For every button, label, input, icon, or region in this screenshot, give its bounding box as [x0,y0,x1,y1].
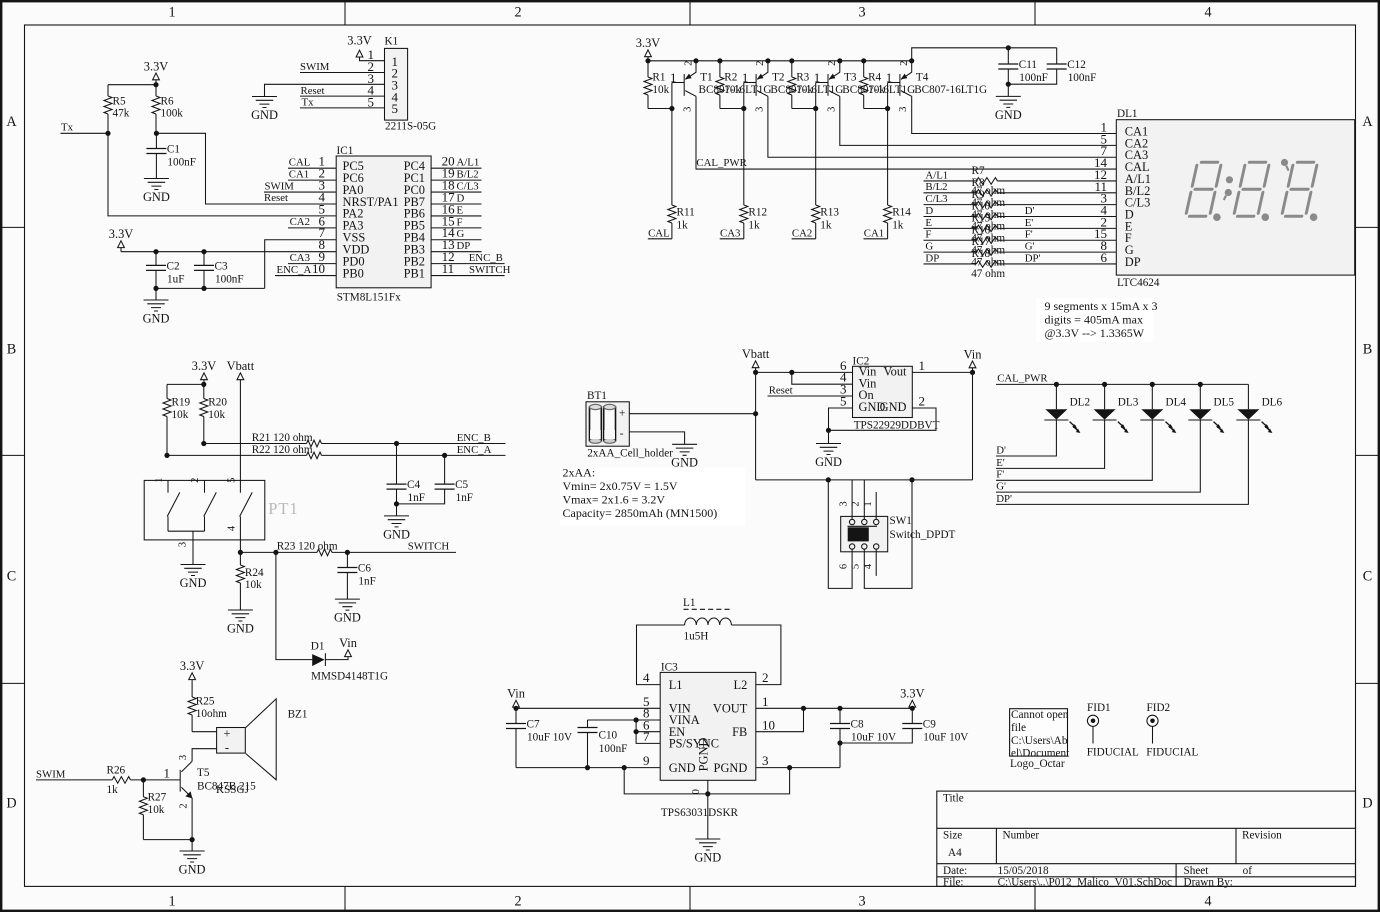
svg-text:L2: L2 [734,678,748,692]
svg-text:10k: 10k [652,84,669,96]
svg-text:2: 2 [179,803,190,808]
resistor R27 [139,780,166,840]
wire SW1 pin3 [851,480,853,519]
junction [153,249,158,254]
wire SWIM (IC1) [264,191,336,193]
IC U1 STM8L151Fx (IC1) [312,145,455,304]
junction [741,106,746,111]
wire ENC_B (IC1) [431,263,505,265]
junction [201,286,206,291]
svg-text:PB0: PB0 [343,266,364,280]
svg-text:9: 9 [643,753,650,768]
svg-text:10k: 10k [208,409,225,421]
ground (C6) [334,599,361,624]
svg-text:Vin: Vin [507,687,525,701]
wire CA3 [288,263,336,265]
svg-text:Title: Title [943,793,964,805]
svg-text:R19: R19 [172,397,191,409]
switch SW1 Switch_DPDT [839,501,956,569]
svg-text:6: 6 [839,564,850,569]
wire C7 top [515,708,517,723]
svg-text:Vmin= 2x0.75V = 1.5V: Vmin= 2x0.75V = 1.5V [563,479,678,493]
svg-text:1nF: 1nF [456,492,473,504]
svg-text:Tx: Tx [61,122,74,134]
svg-text:DP: DP [925,252,939,264]
junction [394,501,399,506]
wire R27 to emitter node [143,839,192,841]
resistor R13 [812,109,840,239]
junction [970,370,975,375]
transistor T2 BC807-16LT1G (PNP) [742,58,843,112]
svg-text:Vmax= 2x1.6 = 3.2V: Vmax= 2x1.6 = 3.2V [563,493,666,507]
wire C9 top [911,708,913,723]
svg-text:C10: C10 [599,729,618,741]
resistor R8 47 ohm [924,177,1117,209]
junction [622,765,627,770]
svg-text:Vin: Vin [964,347,982,361]
svg-text:FB: FB [732,725,747,739]
ground (IC2) [815,430,842,469]
wire D (IC1) [431,203,481,205]
ground (C11) [995,84,1022,122]
svg-text:BC807-16LT1G: BC807-16LT1G [914,84,987,96]
svg-text:R1: R1 [652,72,665,84]
junction [1150,382,1155,387]
resistor R14 [884,109,912,239]
resistor R16 47 ohm [924,224,1117,256]
wire SW1 pin6 loop [828,480,852,589]
svg-text:GND: GND [880,400,907,414]
svg-text:of: of [1243,865,1253,877]
svg-text:47 ohm: 47 ohm [971,268,1005,280]
wire buzzer - to T5 collector [192,749,217,762]
svg-text:C2: C2 [167,260,180,272]
wire C10 bottom [587,733,589,768]
svg-text:1k: 1k [677,219,689,231]
resistor R19 [163,384,191,455]
wire C9 bottom [840,729,912,744]
svg-text:GND: GND [179,862,206,876]
svg-text:LTC4624: LTC4624 [1117,277,1160,289]
svg-text:DP': DP' [996,493,1012,505]
svg-text:G: G [925,241,933,253]
svg-text:R26: R26 [107,764,126,776]
buzzer BZ1 [217,699,308,780]
wire VSS to cap ground rail [265,240,337,289]
svg-text:10k: 10k [245,579,262,591]
transistor T3 BC807-16LT1G (PNP) [814,58,915,112]
resistor R4 [860,61,886,109]
wire C12 top [1056,48,1058,64]
ground (C2/C3) [143,288,170,325]
wire C8 bottom [839,729,841,768]
svg-text:D: D [925,205,933,217]
wire C3 top [203,252,205,266]
ground (IC3) [694,839,721,864]
svg-text:10k: 10k [796,84,813,96]
svg-text:3: 3 [839,501,850,506]
wire CA3 stub [720,238,744,240]
svg-text:PB1: PB1 [404,266,425,280]
svg-text:10k: 10k [148,804,165,816]
wire DL2 cathode [996,420,1056,456]
capacitor C2 [146,260,184,285]
ground (battery) [671,444,698,469]
svg-text:GND: GND [227,621,254,635]
capacitor C4 [387,479,425,504]
svg-text:Sheet: Sheet [1184,865,1210,877]
wire SW1 pin4 [875,549,877,576]
svg-text:10uF 10V: 10uF 10V [923,732,968,744]
junction [826,428,831,433]
junction [164,453,169,458]
display DL1 LTC4624 [1094,108,1355,289]
wire C6 bottom [346,573,348,600]
svg-text:DP: DP [457,240,471,252]
svg-text:CA2: CA2 [792,227,812,239]
resistor R2 [716,61,742,109]
wire 3.3V to VDD [121,251,336,253]
svg-text:R7: R7 [972,165,985,177]
inductor L1 1u5H [683,597,732,643]
svg-text:FIDUCIAL: FIDUCIAL [1146,746,1198,758]
wire FB to VOUT [756,708,804,731]
svg-text:GND: GND [251,108,278,122]
svg-text:3: 3 [754,107,765,112]
svg-text:R25: R25 [196,696,215,708]
LED DL5 [1188,384,1234,433]
wire DL3 cathode [996,420,1105,468]
svg-text:4: 4 [643,670,650,685]
svg-text:PGND: PGND [697,738,711,772]
svg-text:2: 2 [514,894,521,910]
wire C1 top [155,133,157,148]
resistor R15 47 ohm [924,212,1117,244]
svg-text:15/05/2018: 15/05/2018 [998,865,1049,877]
svg-text:10uF 10V: 10uF 10V [527,732,572,744]
wire CAL [288,167,336,169]
svg-text:+: + [224,726,231,740]
wire G (IC1) [431,239,481,241]
wire 3.3V rail to R5 [108,84,156,86]
resistor R22 120 ohm / wire ENC_A [167,444,506,459]
svg-text:TPS22929DDBVT: TPS22929DDBVT [854,420,940,432]
IC U3 TPS63031DSKR (IC3) [643,661,775,819]
note: display power [1036,298,1158,342]
fiducial FID2 [1146,702,1198,758]
svg-text:DL4: DL4 [1166,397,1187,409]
svg-text:C12: C12 [1067,59,1086,71]
svg-text:R5: R5 [113,96,126,108]
svg-text:T4: T4 [916,72,929,84]
junction [669,106,674,111]
junction [1006,45,1011,50]
junction [753,370,758,375]
junction [789,58,794,63]
svg-text:KSSGJ: KSSGJ [216,784,250,796]
wire Tx to IC1 pin5 [108,133,336,216]
junction [885,106,890,111]
svg-text:5: 5 [840,393,847,408]
svg-text:BZ1: BZ1 [288,709,308,721]
wire T1 collector to DL1 [696,96,1116,169]
svg-text:1: 1 [670,70,677,85]
svg-text:GND: GND [180,576,207,590]
wire CAL_PWR rail [996,383,1248,385]
svg-text:F: F [925,229,931,241]
svg-text:D: D [457,192,465,204]
svg-text:PT1: PT1 [268,499,299,518]
svg-text:CA3: CA3 [290,252,310,264]
svg-text:FID2: FID2 [1147,702,1171,714]
svg-text:1k: 1k [107,784,119,796]
svg-text:SWIM: SWIM [265,180,295,192]
wire 3.3V rail (transistors) [648,60,912,62]
svg-text:C5: C5 [455,479,468,491]
svg-text:Vout: Vout [883,365,907,379]
svg-text:file: file [1011,722,1026,734]
note: logo placeholder [1010,709,1071,770]
junction [801,706,806,711]
svg-text:Logo_Octar: Logo_Octar [1010,758,1065,770]
svg-text:5: 5 [226,478,237,483]
svg-text:2211S-05G: 2211S-05G [385,121,436,133]
svg-text:4: 4 [226,525,237,531]
junction [1006,82,1011,87]
svg-text:3.3V: 3.3V [144,59,168,73]
power 3.3V (K1) [347,33,384,60]
wire Reset [300,95,385,97]
wire C12 bottom [1008,69,1056,84]
power Vin (D1) [339,636,357,657]
junction [789,370,794,375]
seven-segment digits graphic [1186,162,1318,216]
svg-text:Revision: Revision [1242,829,1282,841]
svg-text:Reset: Reset [769,384,793,396]
resistor R12 [740,109,767,239]
svg-text:10ohm: 10ohm [196,708,227,720]
capacitor C3 [194,260,244,285]
svg-text:PGND: PGND [714,761,748,775]
svg-text:C/L3: C/L3 [457,180,479,192]
wire C2 top [155,252,157,266]
svg-text:C/L3: C/L3 [925,193,947,205]
svg-text:GND: GND [334,611,361,625]
resistor R25 [188,680,227,732]
svg-text:C4: C4 [407,479,420,491]
power 3.3V (transistors) [636,36,660,61]
svg-text:1k: 1k [892,219,904,231]
wire B/L2 (IC1) [431,179,481,181]
svg-text:T3: T3 [844,72,857,84]
svg-text:GND: GND [143,311,170,325]
svg-text:digits = 405mA max: digits = 405mA max [1045,313,1143,327]
svg-text:-: - [225,741,229,755]
capacitor C6 [337,563,375,588]
svg-text:A: A [1362,114,1373,130]
svg-text:F': F' [1025,229,1033,241]
junction [153,286,158,291]
svg-text:L1: L1 [683,597,695,609]
svg-text:A/L1: A/L1 [457,157,480,169]
svg-text:-: - [620,428,624,440]
svg-text:9 segments x 15mA x 3: 9 segments x 15mA x 3 [1045,299,1158,313]
junction [787,765,792,770]
ground (T5) [179,840,206,877]
junction [813,106,818,111]
resistor R10 47 ohm [924,201,1117,233]
svg-text:Reset: Reset [301,85,325,97]
svg-text:E: E [457,204,464,216]
junction [1054,382,1059,387]
svg-text:R21 120 ohm: R21 120 ohm [252,432,313,444]
wire C11 top [1007,48,1009,64]
LED DL3 [1093,384,1139,433]
svg-text:R18: R18 [972,248,991,260]
svg-text:ENC_B: ENC_B [457,432,491,444]
resistor R6 [152,85,183,134]
wire CA1 stub [864,238,888,240]
resistor R11 [668,109,695,239]
svg-text:DL2: DL2 [1070,397,1091,409]
svg-text:1nF: 1nF [358,576,375,588]
svg-text:T5: T5 [197,767,210,779]
svg-text:+: + [619,407,625,419]
wire F (IC1) [431,227,481,229]
wire rail to C11/C12 [912,48,1057,61]
capacitor C12 [1047,59,1097,84]
svg-text:B: B [7,342,16,358]
resistor R5 [104,85,130,134]
svg-text:IC1: IC1 [337,145,354,157]
wire C5 top [444,455,446,484]
svg-text:1: 1 [168,5,175,21]
svg-text:D: D [6,796,16,812]
svg-text:G: G [457,228,465,240]
wire IC2 pin5 to GND [829,408,853,430]
svg-text:F: F [457,216,463,228]
svg-text:C8: C8 [851,719,864,731]
wire C8 top [839,708,841,723]
resistor R7 47 ohm [924,165,1117,197]
svg-text:Tx: Tx [302,97,315,109]
junction [513,706,518,711]
transistor T1 BC807-16LT1G (PNP) [670,58,771,112]
wire R1 to base node [648,108,672,110]
svg-text:10k: 10k [172,409,189,421]
wire C3 bottom [203,270,205,288]
svg-text:GND: GND [669,761,696,775]
wire C6 top [346,552,348,567]
junction [154,131,159,136]
ground (C1) [143,179,170,204]
svg-text:Number: Number [1003,829,1040,841]
wire C/L3 (IC1) [431,191,481,193]
svg-text:Date:: Date: [943,865,967,877]
svg-text:2: 2 [762,670,769,685]
junction [826,477,831,482]
junction [634,717,639,722]
wire E (IC1) [431,215,481,217]
svg-text:3: 3 [858,894,865,910]
svg-text:100nF: 100nF [1068,72,1097,84]
wire battery + to Vbatt [629,413,755,415]
svg-text:GND: GND [995,108,1022,122]
svg-text:T2: T2 [772,72,784,84]
svg-text:1u5H: 1u5H [684,630,709,642]
svg-text:FID1: FID1 [1087,702,1111,714]
svg-text:R14: R14 [892,207,911,219]
junction [345,550,350,555]
wire Vin down to Vbatt rail [972,372,974,480]
wire C1 to GND [155,154,157,179]
ground (PT1) [180,565,207,590]
wire R2 to base node [720,108,744,110]
power Vbatt (encoder) [227,359,255,380]
junction [201,382,206,387]
wire Tx [61,132,109,134]
svg-text:Drawn By:: Drawn By: [1184,876,1233,888]
svg-text:STM8L151Fx: STM8L151Fx [337,292,401,304]
svg-text:2: 2 [755,61,766,66]
svg-text:3.3V: 3.3V [900,687,924,701]
svg-text:3.3V: 3.3V [347,33,371,47]
power 3.3V (R5/R6) [144,59,168,84]
svg-text:R6: R6 [161,96,174,108]
junction [153,82,158,87]
power 3.3V (buzzer) [180,659,204,680]
svg-text:4: 4 [1204,5,1211,21]
svg-text:TPS63031DSKR: TPS63031DSKR [661,807,739,819]
wire R6 to NRST [156,133,336,204]
svg-text:C1: C1 [167,144,180,156]
svg-text:C:\Users\Ab: C:\Users\Ab [1011,735,1068,747]
svg-text:CA2: CA2 [290,216,310,228]
wire T2 collector to DL1 [768,96,1116,157]
wire Tx (K1) [300,107,385,109]
svg-text:R2: R2 [724,72,737,84]
svg-text:3.3V: 3.3V [180,659,204,673]
svg-text:5: 5 [368,94,375,109]
svg-text:1: 1 [164,766,171,781]
svg-text:CAL_PWR: CAL_PWR [696,157,747,169]
svg-text:100nF: 100nF [215,273,244,285]
svg-text:E': E' [1025,217,1034,229]
power Vin (IC2 out) [964,347,982,372]
svg-text:3: 3 [898,107,909,112]
wire 3.3V to R19 [167,383,204,385]
svg-text:R23 120 ohm: R23 120 ohm [277,540,338,552]
wire Vbatt rail to SW1 [756,479,973,481]
resistor R9 47 ohm [924,189,1117,221]
power 3.3V (C9) [900,687,924,709]
svg-text:C:\Users\..\P012_Malico_V01.Sc: C:\Users\..\P012_Malico_V01.SchDoc [998,876,1172,888]
svg-text:100k: 100k [161,108,184,120]
wire R25 to buzzer + [192,731,217,733]
svg-text:C: C [7,569,16,585]
svg-text:R17: R17 [972,236,991,248]
junction (emitter) [765,58,770,63]
svg-text:CAL_PWR: CAL_PWR [997,373,1048,385]
wire Vbatt to IC2 pin6 [756,371,853,373]
wire T4 collector to DL1 [912,96,1117,133]
svg-text:Vbatt: Vbatt [742,347,770,361]
svg-text:@3.3V --> 1.3365W: @3.3V --> 1.3365W [1045,326,1145,340]
wire T3 collector to DL1 [840,96,1117,145]
svg-text:4: 4 [1204,894,1211,910]
svg-text:A/L1: A/L1 [925,169,948,181]
svg-text:CA1: CA1 [289,168,309,180]
